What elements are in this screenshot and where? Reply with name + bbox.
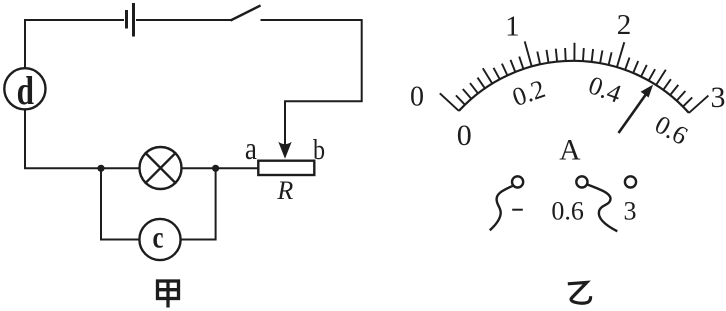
svg-text:c: c [152,221,163,255]
caption 乙 [568,282,591,303]
svg-text:R: R [276,176,293,205]
svg-text:0.6: 0.6 [551,196,584,225]
wire top-left from battery to left side [25,20,123,68]
svg-text:2: 2 [617,9,632,41]
svg-text:0.4: 0.4 [585,70,625,108]
terminal 0.6 [576,176,587,187]
caption 甲 [158,281,179,308]
svg-text:0.2: 0.2 [509,74,549,112]
needle [619,85,654,133]
label minus [512,209,523,211]
wire meter c right up to node2 [181,168,216,239]
wire node1 down and right to meter c [101,168,139,239]
voltmeter c [139,219,180,260]
wire node1 to lamp [101,167,140,169]
ammeter d [4,68,45,109]
battery B1 [127,5,134,36]
svg-text:d: d [17,68,34,113]
wire lamp to node2 to rheostat [182,167,259,169]
svg-text:0: 0 [457,119,472,152]
svg-text:0: 0 [410,82,424,113]
terminal 3 [625,176,636,187]
junction node1 [97,165,104,172]
switch S1 [232,6,260,20]
slider arrow into rheostat [284,144,286,148]
rheostat R box [258,161,314,175]
wire battery to switch [137,19,232,21]
wire d down to bottom-left corner then right to node1 [25,109,101,168]
junction node2 [212,165,219,172]
scale ticks [440,41,709,113]
terminal minus [512,176,523,187]
svg-text:0.6: 0.6 [650,110,692,151]
svg-text:1: 1 [505,11,520,43]
svg-text:3: 3 [624,197,637,226]
lead wire at minus terminal [490,186,513,231]
svg-text:b: b [313,134,325,165]
svg-text:3: 3 [711,81,726,114]
svg-text:A: A [559,135,581,167]
lamp L1 [140,147,182,189]
wire switch to right corner [262,20,362,144]
scale arc [459,61,689,113]
lead wire at 0.6 terminal [587,184,618,231]
svg-text:a: a [245,132,257,166]
